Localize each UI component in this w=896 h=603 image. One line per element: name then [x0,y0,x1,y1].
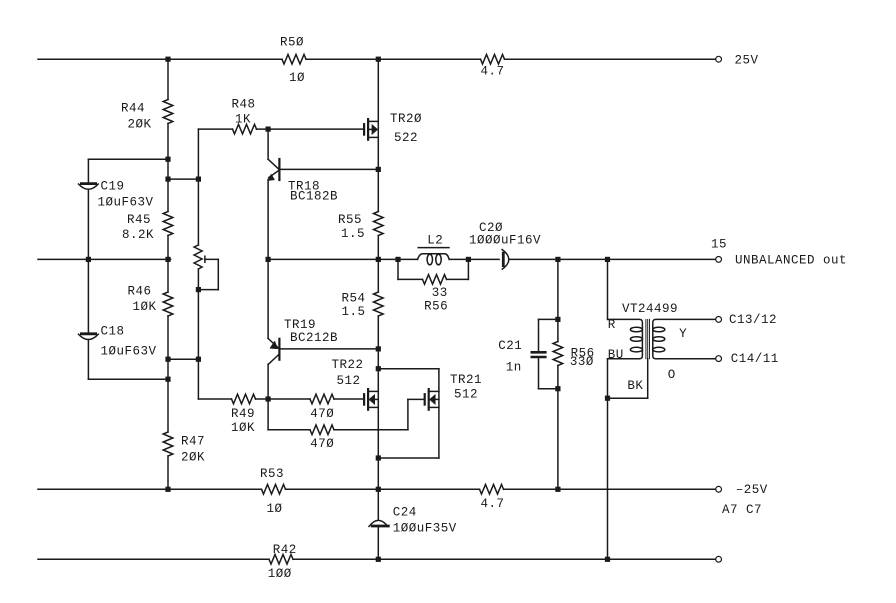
svg-text:L2: L2 [427,233,443,247]
svg-text:R: R [608,318,616,332]
svg-text:512: 512 [337,374,361,388]
svg-text:2ØK: 2ØK [128,118,152,132]
svg-text:BU: BU [608,348,624,362]
svg-text:1ØuF63V: 1ØuF63V [98,195,154,209]
svg-text:1ØØØuF16V: 1ØØØuF16V [469,234,541,248]
svg-text:R56: R56 [424,300,448,314]
svg-text:R53: R53 [260,467,284,481]
svg-text:1ØØuF35V: 1ØØuF35V [393,522,457,536]
svg-text:47Ø: 47Ø [310,407,334,421]
svg-text:R46: R46 [128,285,152,299]
svg-text:1ØuF63V: 1ØuF63V [101,345,157,359]
svg-text:BK: BK [627,379,643,393]
svg-text:BC182B: BC182B [290,190,338,204]
svg-text:UNBALANCED out: UNBALANCED out [735,254,847,268]
svg-text:TR22: TR22 [332,358,364,372]
svg-text:VT24499: VT24499 [622,302,678,316]
svg-text:C13/12: C13/12 [729,313,777,327]
svg-text:A7 C7: A7 C7 [722,503,762,517]
svg-text:25V: 25V [735,53,759,67]
svg-text:C19: C19 [101,179,125,193]
svg-text:R47: R47 [181,435,205,449]
svg-text:R49: R49 [231,407,255,421]
svg-text:C21: C21 [498,339,522,353]
svg-text:R45: R45 [127,213,151,227]
svg-text:O: O [668,368,676,382]
svg-text:TR2Ø: TR2Ø [390,112,422,126]
svg-text:R55: R55 [338,213,362,227]
svg-text:R42: R42 [273,543,297,557]
svg-text:33: 33 [432,286,448,300]
svg-text:1K: 1K [235,113,251,127]
svg-text:522: 522 [394,131,418,145]
svg-text:1Ø: 1Ø [267,502,283,516]
svg-text:C24: C24 [393,506,417,520]
svg-text:1ØK: 1ØK [231,421,255,435]
svg-text:47Ø: 47Ø [310,437,334,451]
svg-text:2ØK: 2ØK [181,451,205,465]
svg-text:R48: R48 [232,98,256,112]
svg-text:C14/11: C14/11 [731,352,779,366]
svg-text:C18: C18 [101,324,125,338]
svg-text:BC212B: BC212B [290,331,338,345]
svg-text:R54: R54 [342,292,366,306]
svg-text:8.2K: 8.2K [122,228,154,242]
svg-text:TR21: TR21 [450,373,482,387]
svg-text:R5Ø: R5Ø [280,35,304,49]
svg-text:1Ø: 1Ø [289,71,305,85]
svg-text:R44: R44 [121,101,145,115]
svg-text:1ØK: 1ØK [133,300,157,314]
svg-text:1n: 1n [506,360,522,374]
svg-text:33Ø: 33Ø [570,355,594,369]
svg-text:Y: Y [679,327,687,341]
svg-text:TR19: TR19 [284,318,316,332]
svg-text:1.5: 1.5 [341,227,365,241]
svg-text:512: 512 [454,388,478,402]
svg-text:15: 15 [711,238,727,252]
svg-text:4.7: 4.7 [481,65,505,79]
svg-text:4.7: 4.7 [481,497,505,511]
svg-text:–25V: –25V [736,483,768,497]
svg-text:1.5: 1.5 [342,305,366,319]
svg-text:1ØØ: 1ØØ [268,567,292,581]
